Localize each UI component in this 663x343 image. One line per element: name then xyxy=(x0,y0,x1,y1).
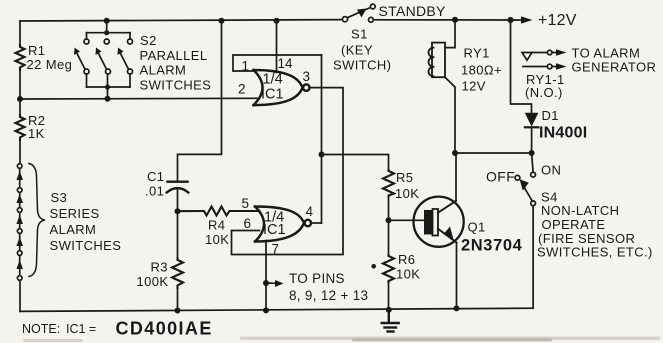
wire S3 bottom to bottom rail xyxy=(19,280,21,311)
wire node to R3 xyxy=(177,211,179,258)
label S3 xyxy=(50,190,122,253)
wire R3 to bottom rail xyxy=(177,288,179,311)
svg-text:OPERATE: OPERATE xyxy=(542,217,606,232)
wire gate2 output pin4 to feedback vertical xyxy=(311,222,322,224)
diode D1 xyxy=(525,113,539,153)
wire left vertical rail xyxy=(19,21,21,45)
svg-text:D1: D1 xyxy=(542,108,559,123)
node D1 bottom junction xyxy=(529,150,535,156)
transistor Q1 xyxy=(414,197,464,247)
node pin4/R5 junction xyxy=(319,152,325,158)
label R4 xyxy=(205,218,229,248)
wire bottom rail xyxy=(20,308,533,311)
svg-text:SWITCH): SWITCH) xyxy=(333,58,391,73)
ground xyxy=(382,310,399,332)
node collector/D1/S4 junction xyxy=(452,150,458,156)
wire R1 to junction xyxy=(19,70,21,99)
svg-text:C1: C1 xyxy=(147,169,164,184)
resistor R6 xyxy=(383,255,394,282)
wire C1 to node xyxy=(177,190,179,212)
scan streak bottom xyxy=(23,337,660,343)
switch S4 xyxy=(515,153,535,308)
svg-text:22 Meg: 22 Meg xyxy=(27,57,73,72)
wire R2 to S3 xyxy=(19,140,21,164)
svg-text:+12V: +12V xyxy=(538,12,577,29)
wire R6 to bottom rail xyxy=(388,282,390,310)
svg-text:OFF: OFF xyxy=(486,169,515,185)
S3 brace xyxy=(29,164,45,277)
resistor R1 xyxy=(16,45,25,70)
svg-text:2: 2 xyxy=(238,82,246,97)
node base junction xyxy=(386,217,392,223)
pin 1 wire and feedback box xyxy=(233,55,322,71)
label C1 xyxy=(145,169,164,199)
svg-text:GENERATOR: GENERATOR xyxy=(572,60,657,75)
resistor R5 xyxy=(383,170,394,196)
svg-text:180Ω+: 180Ω+ xyxy=(461,63,502,78)
wire to-pins arrow xyxy=(266,282,276,284)
resistor R2 xyxy=(16,115,25,140)
svg-text:IC1 =: IC1 = xyxy=(66,322,96,336)
switch S1 key switch xyxy=(342,4,375,22)
node emitter bottom junction xyxy=(454,305,460,311)
node pin7 to-pins junction xyxy=(263,280,269,286)
svg-text:R4: R4 xyxy=(208,218,225,233)
label S4 block xyxy=(537,190,653,260)
svg-text:3: 3 xyxy=(303,69,311,84)
svg-text:(N.O.): (N.O.) xyxy=(525,85,563,100)
wire gate1 output pin3 xyxy=(232,88,344,255)
wire rail down to C1 xyxy=(178,21,222,181)
node R1/R2 junction xyxy=(17,96,23,102)
svg-text:10K: 10K xyxy=(396,267,420,282)
svg-text:4: 4 xyxy=(306,204,314,219)
wire base node to R6 xyxy=(388,220,390,255)
svg-text:S1: S1 xyxy=(351,27,368,42)
wire top rail right (S1 to +12V stub) xyxy=(374,19,518,21)
node R3 bottom junction xyxy=(175,308,181,314)
svg-text:ALARM: ALARM xyxy=(50,222,97,237)
svg-text:14: 14 xyxy=(278,56,294,71)
svg-text:TO PINS: TO PINS xyxy=(289,271,345,286)
wire collector up xyxy=(455,153,457,201)
pin 14 wire xyxy=(276,21,278,73)
label S2 xyxy=(140,33,212,93)
op-amp gate U1a (1/4 IC1 NOR) xyxy=(254,70,310,105)
svg-text:1/4: 1/4 xyxy=(263,72,283,88)
svg-text:ALARM: ALARM xyxy=(140,63,187,78)
svg-text:S2: S2 xyxy=(140,33,157,48)
wire pin 7 down xyxy=(265,241,267,311)
wire +12V stub arrow xyxy=(511,19,525,21)
node R6 bottom junction xyxy=(386,307,392,313)
wire base to Q1 xyxy=(389,219,425,221)
svg-text:RY1: RY1 xyxy=(464,46,490,61)
svg-text:SWITCHES: SWITCHES xyxy=(140,78,212,93)
op-amp gate U1b (1/4 IC1 NOR) xyxy=(255,207,311,242)
svg-text:IC1: IC1 xyxy=(263,222,286,238)
svg-text:7: 7 xyxy=(272,242,280,257)
label pin numbers gate2 xyxy=(242,196,314,257)
label D1 xyxy=(539,108,587,142)
svg-text:SWITCHES: SWITCHES xyxy=(50,238,122,253)
stray ink speck xyxy=(371,264,376,269)
label R2 xyxy=(28,113,45,141)
svg-text:.01: .01 xyxy=(145,184,164,199)
node pin7 bottom junction xyxy=(263,307,269,313)
svg-text:IN400I: IN400I xyxy=(539,125,587,142)
svg-text:2N3704: 2N3704 xyxy=(461,237,523,255)
svg-text:IC1: IC1 xyxy=(261,87,284,103)
label OFF / ON xyxy=(486,163,561,185)
svg-text:12V: 12V xyxy=(462,79,486,94)
wire pin4 node to R5 top xyxy=(322,155,389,171)
svg-text:NOTE:: NOTE: xyxy=(22,322,60,336)
node C1/R3/R4 junction xyxy=(175,208,181,214)
svg-text:R6: R6 xyxy=(398,252,415,267)
wire rail down to D1 xyxy=(511,20,532,113)
wire top rail left (from left wire to S1) xyxy=(20,20,342,21)
svg-text:1: 1 xyxy=(242,59,250,74)
svg-text:NON-LATCH: NON-LATCH xyxy=(541,203,619,218)
svg-text:SWITCHES, ETC.): SWITCHES, ETC.) xyxy=(537,245,653,260)
svg-text:ON: ON xyxy=(541,163,561,178)
svg-text:Q1: Q1 xyxy=(468,220,486,235)
wire emitter down xyxy=(456,243,458,309)
label TO PINS xyxy=(289,271,368,303)
wire alarm line to gate1 pin2 xyxy=(20,97,260,100)
switch S2 parallel bank xyxy=(74,21,133,99)
wire junction to R2 xyxy=(19,99,21,115)
label RY1-1 (N.O.) xyxy=(525,72,565,100)
resistor R3 xyxy=(172,258,183,288)
svg-text:STANDBY: STANDBY xyxy=(379,3,447,19)
node RY1 rail junction xyxy=(452,17,458,23)
svg-text:TO ALARM: TO ALARM xyxy=(572,46,641,61)
switch S3 series chain xyxy=(16,164,23,281)
label Q1 xyxy=(461,220,523,255)
resistor R4 xyxy=(178,207,260,216)
node C1 top rail junction xyxy=(219,18,225,24)
svg-text:PARALLEL: PARALLEL xyxy=(140,48,208,63)
svg-text:8, 9, 12 + 13: 8, 9, 12 + 13 xyxy=(289,288,368,303)
wire R5 to base node xyxy=(388,196,390,220)
svg-text:S3: S3 xyxy=(51,190,68,205)
relay contact RY1-1 xyxy=(522,49,567,70)
svg-text:(KEY: (KEY xyxy=(341,43,373,58)
svg-text:100K: 100K xyxy=(137,274,169,289)
node S2 bottom junction xyxy=(105,96,111,102)
node pin14 rail junction xyxy=(274,18,280,24)
svg-text:R1: R1 xyxy=(28,43,45,58)
label R5 xyxy=(395,170,419,201)
svg-text:R3: R3 xyxy=(151,260,168,275)
svg-text:10K: 10K xyxy=(205,232,229,247)
capacitor C1 xyxy=(167,182,189,193)
label R6 xyxy=(396,252,420,282)
label pin numbers gate1 xyxy=(238,56,310,103)
svg-text:CD400IAE: CD400IAE xyxy=(116,319,213,339)
svg-text:5: 5 xyxy=(242,196,250,211)
node S2 top rail junction xyxy=(104,18,110,24)
node D1 rail junction xyxy=(507,17,513,23)
wire D1 node to collector node xyxy=(455,152,532,154)
label TO ALARM GENERATOR xyxy=(572,46,657,75)
wire pin4-to-pin1 feedback vertical xyxy=(321,55,323,223)
svg-text:1K: 1K xyxy=(28,126,45,141)
label RY1 xyxy=(461,46,502,94)
label S1 xyxy=(333,27,391,73)
relay RY1 coil xyxy=(429,20,455,153)
svg-text:R5: R5 xyxy=(396,170,413,185)
svg-text:SERIES: SERIES xyxy=(50,206,100,221)
svg-text:10K: 10K xyxy=(395,186,419,201)
label R1 xyxy=(27,43,73,72)
label NOTE xyxy=(22,319,213,339)
label +12V xyxy=(538,12,577,29)
label R3 xyxy=(137,260,169,290)
label STANDBY xyxy=(379,3,447,19)
svg-text:6: 6 xyxy=(244,216,252,231)
